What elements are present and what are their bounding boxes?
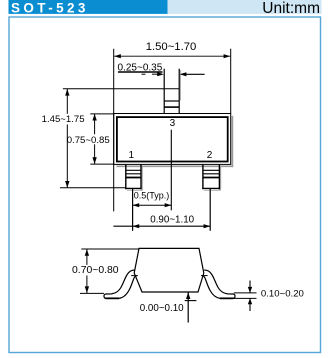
side view right lead bbox=[201, 270, 235, 299]
dimension 0.5(Typ.) (lead pitch) bbox=[133, 191, 172, 208]
seating plane lines (right) bbox=[230, 293, 257, 299]
header unit strip bbox=[168, 0, 322, 17]
dimension 0.90~1.10 (lead span) bbox=[113, 214, 210, 228]
svg-text:0.5(Typ.): 0.5(Typ.) bbox=[134, 191, 170, 201]
svg-text:0.70~0.80: 0.70~0.80 bbox=[72, 265, 119, 276]
dimension 1.50~1.70 (body width, top) bbox=[114, 41, 231, 211]
svg-text:3: 3 bbox=[170, 118, 176, 129]
pin1 lead center extension bbox=[132, 189, 134, 231]
body outline (top view inner) bbox=[117, 117, 228, 161]
dimension 0.00~0.10 (standoff) bbox=[140, 292, 197, 322]
side view left lead bbox=[104, 270, 138, 299]
svg-text:1: 1 bbox=[129, 150, 135, 161]
svg-text:1.50~1.70: 1.50~1.70 bbox=[146, 41, 197, 53]
svg-text:SOT-523: SOT-523 bbox=[11, 0, 89, 15]
svg-text:0.00~0.10: 0.00~0.10 bbox=[140, 303, 184, 314]
svg-text:0.75~0.85: 0.75~0.85 bbox=[67, 135, 110, 146]
body outline (top view outer) bbox=[114, 114, 231, 165]
dimension 0.75~0.85 (body height, left) bbox=[67, 114, 114, 164]
pin2 lead center extension bbox=[209, 189, 211, 231]
pin 1 lead (bottom left) bbox=[125, 165, 141, 190]
dimension 0.70~0.80 (body height, side view) bbox=[72, 249, 139, 293]
header title bar bbox=[9, 0, 168, 15]
body shadow (gray, right and bottom) bbox=[117, 116, 234, 167]
dimension 0.10~0.20 (lead thickness) bbox=[248, 281, 304, 312]
svg-text:0.90~1.10: 0.90~1.10 bbox=[150, 214, 194, 225]
lead foot shadows (gray) bbox=[127, 70, 221, 190]
centerline from pin 3 bbox=[170, 130, 172, 211]
pin 3 lead (top) bbox=[164, 69, 179, 114]
pin 2 lead (bottom right) bbox=[202, 165, 219, 190]
side view body bbox=[134, 248, 204, 292]
dimension 0.25~0.35 (lead width) bbox=[118, 62, 205, 76]
svg-text:Unit:mm: Unit:mm bbox=[262, 0, 320, 17]
svg-text:1.45~1.75: 1.45~1.75 bbox=[42, 114, 85, 125]
svg-text:2: 2 bbox=[207, 150, 213, 161]
svg-text:0.10~0.20: 0.10~0.20 bbox=[261, 289, 304, 300]
dimension 1.45~1.75 (overall width, left) bbox=[42, 89, 180, 188]
